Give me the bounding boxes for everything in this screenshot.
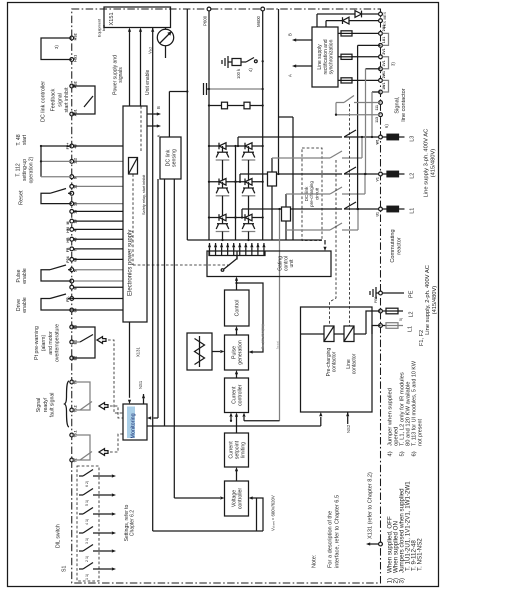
IGBT Q1 (219, 143, 226, 150)
terminal 74 (70, 380, 74, 384)
monitoring box (123, 404, 147, 440)
feedback control loop (237, 283, 264, 352)
svg-text:3): 3) (54, 45, 59, 49)
svg-text:Note:: Note: (312, 554, 318, 568)
switch Reset (41, 193, 72, 203)
terminal 7 (72, 248, 123, 250)
switch 4) to M600 (246, 58, 254, 63)
svg-text:limiting: limiting (240, 442, 246, 458)
capacitor DC link (203, 83, 205, 95)
svg-text:Signal,: Signal, (395, 96, 401, 114)
terminal U1 (379, 207, 383, 211)
svg-text:Feedback: Feedback (51, 88, 57, 111)
terminal drive-a (70, 297, 74, 301)
switch Drive enable (41, 299, 72, 311)
DIL switch 4 (79, 513, 83, 515)
svg-text:PE: PE (409, 290, 415, 298)
svg-text:1V1: 1V1 (382, 60, 386, 66)
terminal F2 L2 (379, 309, 383, 313)
svg-text:not present: not present (418, 419, 424, 446)
block Current setpoint limiting (225, 433, 249, 467)
svg-text:interface, refer to Chapter 6: interface, refer to Chapter 6.5 (335, 495, 341, 568)
resistor R1 (222, 102, 228, 109)
terminal E2 (70, 356, 74, 360)
signal flag B (154, 113, 159, 115)
contact fault signal (72, 435, 90, 460)
svg-text:HS2: HS2 (74, 33, 78, 40)
svg-text:NS2: NS2 (346, 424, 351, 433)
wire sensing to bus (164, 179, 166, 426)
contact ready signal (72, 382, 90, 410)
svg-text:Safety relay, start inhibit: Safety relay, start inhibit (142, 174, 146, 215)
svg-text:63: 63 (74, 258, 78, 262)
svg-text:enable: enable (22, 268, 28, 284)
svg-text:unit: unit (289, 259, 295, 268)
rail P600 (208, 11, 210, 240)
svg-text:4): 4) (248, 68, 253, 72)
svg-text:T. NS1-NS2: T. NS1-NS2 (416, 538, 423, 571)
svg-text:Commutating: Commutating (390, 229, 396, 262)
DIL switch 1 (79, 568, 83, 570)
ground symbol PE (375, 287, 377, 299)
wire precharge W (272, 157, 330, 159)
terminal 5 (72, 269, 123, 271)
svg-text:controller: controller (237, 488, 243, 510)
gating control unit box (207, 251, 331, 277)
svg-text:Signal: Signal (36, 398, 42, 412)
fuse L3 (382, 136, 387, 138)
svg-text:contactor: contactor (352, 353, 358, 374)
dashed linkage safety relay (132, 174, 134, 265)
svg-text:112: 112 (74, 158, 78, 164)
dashed box DC link pre-charging (302, 148, 322, 241)
terminal P600 (207, 7, 211, 11)
IGBT Q3 (219, 179, 226, 186)
terminal pulse-b (72, 280, 123, 282)
svg-text:DIL switch: DIL switch (56, 524, 62, 548)
DIL switch 2 (79, 550, 83, 552)
jumper 2U1-1U1 (383, 33, 389, 45)
resistor 100k (232, 59, 241, 66)
line contactor contact at 174 (344, 167, 356, 174)
wire Vd sense to DC link sensing (168, 92, 170, 138)
switch Pulse enable (41, 270, 72, 281)
terminal 13 (72, 203, 123, 205)
svg-text:line contactor: line contactor (401, 88, 407, 121)
terminal AS2 (70, 84, 74, 88)
phase U tap (241, 209, 243, 218)
line contactor contact at 209 (344, 202, 356, 209)
svg-text:ready/: ready/ (43, 397, 49, 412)
svg-text:FB: FB (66, 247, 70, 252)
stub NS1 (143, 394, 145, 396)
svg-text:5: 5 (74, 270, 78, 272)
svg-text:2 1): 2 1) (85, 556, 89, 562)
diode D2 (343, 17, 350, 24)
wire I actual (279, 209, 281, 421)
jumper 2W1-1W1 (383, 80, 389, 92)
wire 24V ext M (316, 14, 318, 27)
svg-text:For a description of the: For a description of the (328, 511, 334, 568)
terminal 1U1 (379, 44, 383, 48)
resistor pre-charge R3 (268, 172, 277, 186)
monitoring bus (147, 425, 321, 427)
svg-text:1U1: 1U1 (382, 37, 386, 43)
wire 1V1 drop (366, 68, 381, 70)
fuse 2W1 (338, 79, 381, 81)
svg-text:2V1: 2V1 (382, 48, 386, 54)
svg-text:1W1: 1W1 (382, 83, 386, 90)
wire signals to X151 (140, 30, 142, 106)
svg-text:MEX: MEX (383, 11, 387, 19)
unit boundary (dash-dot) (72, 9, 381, 583)
electronics power supply box (123, 106, 147, 322)
terminal 113 (379, 113, 383, 117)
safety relay compartment (140, 106, 142, 152)
svg-text:contactor: contactor (332, 351, 338, 372)
bridge row 1 column links (222, 160, 224, 182)
svg-text:(415/480V): (415/480V) (430, 149, 436, 178)
svg-text:enable: enable (22, 297, 28, 313)
svg-text:start inhibit: start inhibit (64, 87, 70, 113)
svg-text:75.2: 75.2 (74, 405, 78, 412)
svg-text:6 2): 6 2) (85, 481, 89, 487)
terminal MEX (379, 12, 383, 16)
line supply rectification box (312, 27, 338, 87)
block Voltage controller (225, 481, 249, 516)
wire coils (301, 333, 325, 335)
svg-text:Control: Control (235, 300, 241, 317)
svg-text:AS2: AS2 (74, 81, 78, 88)
svg-text:P24: P24 (66, 256, 70, 262)
wire F1 to coils (372, 326, 381, 335)
relay safety start inhibit (129, 158, 138, 175)
terminal reset-a (70, 191, 74, 195)
terminal V1 (379, 172, 383, 176)
wire X131 to monitoring (129, 322, 131, 398)
line contactor contact at 137 (344, 130, 356, 137)
DIL switch 5 (79, 494, 83, 496)
gating pulse arrows (209, 243, 211, 245)
wire 24V ext P (325, 21, 327, 27)
svg-text:L3: L3 (410, 136, 416, 142)
svg-text:Iactual: Iactual (276, 341, 280, 349)
IGBT Q2 (245, 143, 252, 150)
fuse 2V1 (338, 56, 381, 58)
svg-text:3): 3) (398, 578, 405, 584)
svg-text:sensing: sensing (171, 149, 177, 167)
svg-text:3): 3) (391, 62, 396, 66)
terminal 64 (70, 308, 74, 312)
svg-text:6): 6) (384, 124, 389, 128)
svg-text:signals: signals (118, 67, 124, 83)
dashed feedback to ready switch (99, 403, 108, 410)
wire balancing (209, 105, 263, 107)
svg-text:Chapter 6.2: Chapter 6.2 (130, 510, 136, 536)
svg-text:X131 (refer to Chapter 8.2): X131 (refer to Chapter 8.2) (368, 472, 374, 539)
connector X151 box (104, 7, 171, 28)
rail M600 (262, 11, 264, 240)
wire dc feed 2 (279, 116, 294, 118)
block Pulse generation (225, 335, 249, 370)
bridge row 3 column links (222, 232, 224, 241)
IGBT Q4 (245, 179, 252, 186)
svg-text:3 1): 3 1) (85, 538, 89, 544)
terminal 2W1 (379, 79, 383, 83)
DIL switch box (77, 466, 99, 581)
terminal 16 (72, 210, 123, 212)
svg-text:F1, F2: F1, F2 (419, 330, 425, 346)
svg-text:DC link controller: DC link controller (41, 81, 47, 122)
svg-text:Unit enable: Unit enable (145, 69, 151, 95)
svg-text:4 1): 4 1) (85, 519, 89, 525)
dashed linkage line contactor (349, 104, 351, 326)
svg-text:HM: HM (66, 227, 70, 233)
bridge bottom bus (187, 239, 322, 241)
svg-text:controller: controller (237, 384, 243, 406)
wire vd to voltage controller (173, 179, 175, 498)
DIL switch 6 (79, 475, 83, 477)
terminal HS2 (70, 36, 74, 40)
wire aux (186, 9, 188, 240)
signal flag B out (294, 39, 299, 41)
svg-text:6): 6) (412, 451, 418, 456)
terminal 48 (72, 145, 123, 147)
svg-text:setting-up: setting-up (22, 159, 28, 181)
svg-text:Vact: Vact (148, 47, 153, 54)
DC link sensing box (160, 137, 181, 179)
fuse L1 (382, 208, 387, 210)
svg-text:Line supply, 2-ph. 400V AC: Line supply, 2-ph. 400V AC (425, 265, 431, 335)
terminal AS1 (70, 112, 74, 116)
terminal 18 (72, 220, 123, 222)
svg-text:generation: generation (237, 340, 243, 365)
DIL switch 3 (79, 532, 83, 534)
arrow voltage to setpoint (236, 469, 238, 481)
dashed feedback to overtemp switch (97, 337, 106, 344)
terminal 111 (379, 101, 383, 105)
wire dc feed (278, 9, 280, 174)
terminal 75.2 (70, 408, 74, 412)
svg-text:X131: X131 (136, 347, 141, 357)
terminal E1 (70, 340, 74, 344)
svg-text:12: 12 (74, 185, 78, 189)
svg-text:Monitoring: Monitoring (131, 413, 137, 438)
svg-text:7: 7 (74, 249, 78, 251)
svg-text:2U1: 2U1 (382, 25, 386, 31)
wire power supply to X151 (129, 30, 131, 106)
dashed linkage pre-charging contactor (330, 160, 337, 326)
arrow setpoint to current (236, 415, 238, 433)
bridge row 2 column links (222, 196, 224, 218)
svg-text:Vd set = 600V/620V: Vd set = 600V/620V (271, 495, 276, 531)
arrow control to gating (236, 279, 238, 290)
jumper HS2-HS1 (41, 38, 72, 60)
svg-text:T. 112: T. 112 (15, 163, 21, 176)
svg-text:A: A (156, 135, 161, 138)
loop E3-E2 (72, 327, 95, 358)
fuse L2 (382, 173, 387, 175)
block Current controller (225, 378, 249, 413)
terminal W1 (379, 135, 383, 139)
bridge row 3 wire (209, 217, 263, 219)
dashed feedback to fault switch (99, 449, 108, 456)
svg-text:16: 16 (74, 210, 78, 214)
svg-text:L1: L1 (408, 326, 414, 332)
bridge mid column (235, 146, 237, 240)
diode D1 (355, 11, 362, 18)
svg-text:X151: X151 (109, 12, 115, 25)
svg-text:AS1: AS1 (74, 109, 78, 116)
bridge row 2 wire (209, 181, 263, 183)
svg-text:(alarm): (alarm) (41, 335, 47, 352)
svg-text:100 k: 100 k (236, 68, 241, 79)
terminal E3 (70, 325, 74, 329)
svg-text:operation 2): operation 2) (28, 156, 34, 183)
svg-text:synchronization: synchronization (329, 39, 335, 74)
svg-text:A: A (288, 74, 293, 77)
contact signal line contactor (354, 102, 381, 104)
svg-text:4): 4) (388, 451, 394, 456)
terminal 12 (72, 185, 123, 187)
signal flag A (154, 125, 159, 127)
stub NS2 (347, 412, 349, 414)
svg-text:8: 8 (74, 288, 78, 290)
svg-text:M: M (66, 222, 70, 225)
svg-text:P600: P600 (203, 15, 208, 26)
svg-text:L2: L2 (410, 173, 416, 179)
svg-text:bus: bus (102, 25, 106, 31)
terminal PE1 (379, 291, 383, 295)
terminal PEX (379, 19, 383, 23)
terminal HS1 (70, 58, 74, 62)
svg-text:signal: signal (57, 93, 63, 107)
svg-text:Tan pre-charging: Tan pre-charging (261, 324, 265, 349)
svg-text:2W1: 2W1 (382, 71, 386, 78)
svg-text:113: 113 (375, 117, 379, 123)
svg-text:9: 9 (74, 177, 78, 179)
terminal X131 (379, 542, 383, 546)
arrow pulsegen to control (236, 328, 238, 335)
terminal 2V1 (379, 55, 383, 59)
svg-text:HS1: HS1 (74, 55, 78, 62)
svg-text:45: 45 (74, 238, 78, 242)
terminal F1 L1 (379, 324, 383, 328)
terminal 75.1 (70, 433, 74, 437)
terminal 45 (72, 238, 123, 240)
svg-text:S1: S1 (62, 566, 68, 572)
resistor R2 (244, 102, 250, 109)
fuse 2U1 (338, 32, 381, 34)
svg-text:75.1: 75.1 (74, 430, 78, 437)
switch motor overtemperature (72, 341, 80, 343)
bridge row 1 wire (209, 145, 263, 147)
oscillator sawtooth (187, 333, 212, 370)
svg-text:B: B (288, 33, 293, 36)
wire F2 to coils (366, 311, 381, 334)
terminal 1V1 (379, 67, 383, 71)
wire precharge V (286, 193, 330, 195)
coil line contactor (344, 326, 354, 342)
svg-text:L1: L1 (410, 208, 416, 214)
svg-text:111: 111 (375, 105, 379, 111)
svg-text:V1: V1 (376, 177, 380, 181)
phase W tap (237, 137, 239, 146)
terminal 9 (72, 176, 123, 178)
wire sensing to monitoring (157, 179, 159, 418)
coil pre-charging contactor (324, 326, 334, 342)
svg-text:Reset: Reset (19, 190, 25, 205)
fuse F2 (382, 310, 386, 312)
svg-text:B: B (156, 106, 161, 109)
terminal 2U1 (379, 32, 383, 36)
svg-text:M600: M600 (256, 15, 261, 27)
ground symbol (227, 56, 229, 68)
block Control (225, 290, 250, 326)
svg-text:U1: U1 (376, 212, 380, 217)
terminal 4 (72, 228, 123, 230)
pre-charging and line contactor box (301, 307, 373, 412)
terminal M600 (261, 7, 265, 11)
terminal 63 (72, 258, 123, 260)
resistor pre-charge R4 (282, 207, 291, 221)
IGBT Q6 (245, 214, 252, 221)
jumper 2V1-1V1 (383, 57, 389, 69)
svg-text:L2: L2 (409, 312, 415, 318)
jumper 48-112-9 (40, 146, 42, 177)
svg-text:48: 48 (74, 144, 78, 148)
arrow osc to pulsegen (212, 351, 220, 353)
fuse F1 (382, 325, 386, 327)
phase V tap (239, 174, 241, 182)
svg-text:reactor: reactor (397, 237, 403, 255)
setpoint loop (253, 498, 264, 531)
terminal 1W1 (379, 90, 383, 94)
svg-text:Pt pre-warning: Pt pre-warning (34, 326, 40, 360)
svg-text:1 1): 1 1) (85, 574, 89, 580)
terminal 72 (70, 458, 74, 462)
gating switch (221, 269, 224, 272)
svg-text:start: start (22, 134, 28, 145)
IGBT Q5 (219, 214, 226, 221)
svg-text:5): 5) (399, 318, 403, 321)
svg-text:W1: W1 (376, 139, 380, 144)
wire unit enable (152, 28, 154, 30)
brace signal group (65, 381, 70, 427)
arrow current to pulsegen (236, 372, 238, 378)
wire bus corner (153, 530, 263, 532)
wire 1W1 drop (372, 91, 381, 93)
svg-text:and motor: and motor (48, 331, 54, 355)
wire 1U1 drop (358, 44, 381, 46)
monitoring highlight (127, 407, 135, 439)
wire PE out (382, 292, 404, 294)
svg-text:13: 13 (74, 202, 78, 206)
svg-text:5 1): 5 1) (85, 500, 89, 506)
signal flag A out (294, 65, 299, 67)
svg-text:5): 5) (400, 451, 406, 456)
svg-text:fault signal: fault signal (50, 393, 56, 418)
voltmeter Vd actual (157, 29, 173, 45)
svg-text:NS1: NS1 (138, 380, 143, 389)
svg-text:overtemperature: overtemperature (55, 324, 61, 362)
svg-text:Electronics power supply: Electronics power supply (128, 230, 134, 296)
terminal 8 (72, 286, 123, 288)
terminal 112 (72, 160, 123, 162)
arrow precharge to gating (324, 240, 326, 245)
svg-text:HB: HB (66, 237, 70, 243)
svg-text:(415/480V): (415/480V) (432, 286, 438, 315)
